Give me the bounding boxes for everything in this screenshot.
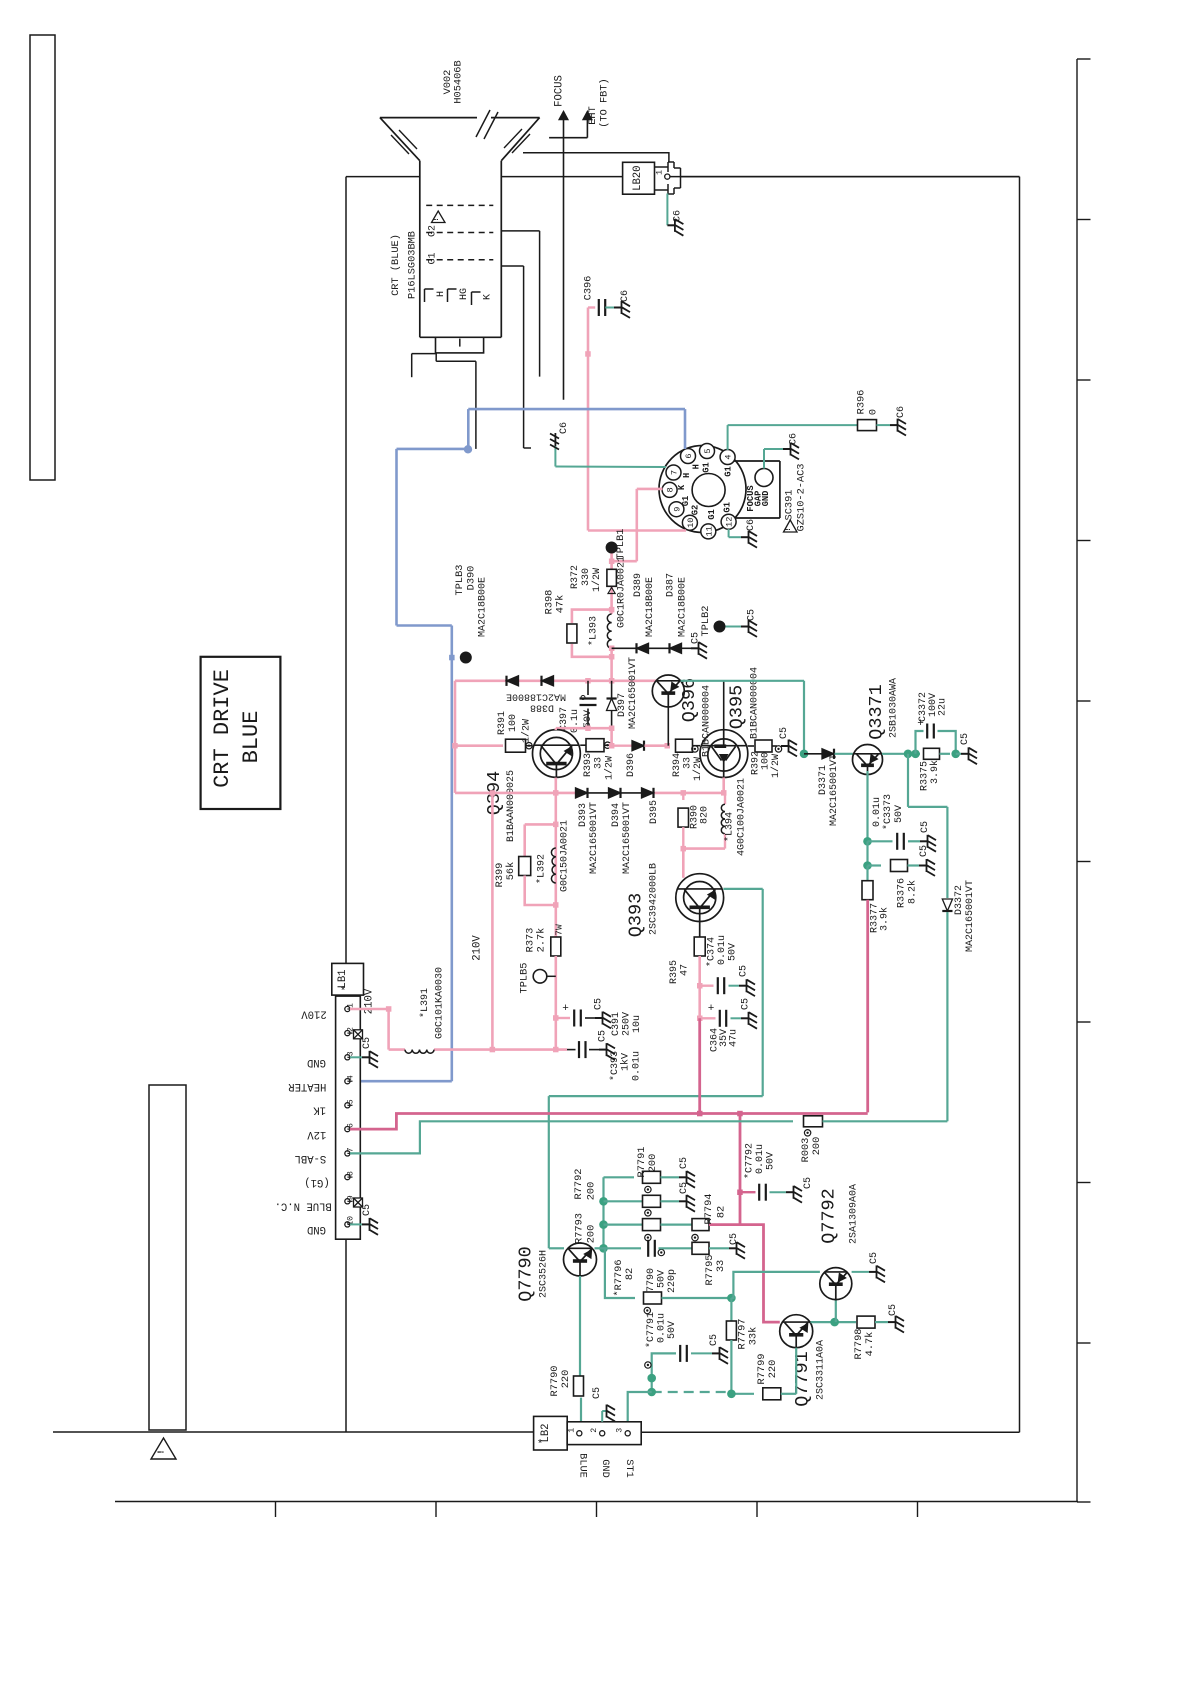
svg-text:D394: D394: [611, 803, 622, 827]
svg-text:G1: G1: [428, 252, 439, 264]
svg-text:2SC3942000LB: 2SC3942000LB: [649, 863, 660, 935]
label Q3371: [866, 684, 887, 740]
resistor R7799: [727, 1354, 796, 1400]
title strip top-left: [30, 35, 55, 480]
svg-text:GND: GND: [307, 1223, 326, 1235]
svg-text:D3371: D3371: [818, 765, 829, 795]
wire Q396 to Q3371 green: [681, 681, 809, 758]
svg-text:22u: 22u: [938, 698, 949, 716]
svg-text:R395: R395: [669, 960, 680, 984]
wire Q7792 emitter ground: [852, 1252, 885, 1282]
wire Q393 emitter green: [549, 889, 763, 1248]
capacitor C7792: [737, 1143, 814, 1203]
wire Q7790 base entry: [549, 1247, 564, 1249]
svg-text:*C7792: *C7792: [744, 1143, 756, 1179]
border ruler right: [1077, 59, 1091, 1502]
svg-text:C6: C6: [789, 433, 800, 445]
svg-text:C396: C396: [583, 276, 595, 301]
svg-text:SC391: SC391: [784, 490, 796, 521]
test point TPLB3: [460, 652, 472, 664]
label D390: [466, 566, 478, 591]
wire Q394 emitter: [554, 778, 557, 793]
svg-text:C5: C5: [679, 1157, 690, 1169]
svg-text:BLUE: BLUE: [577, 1453, 589, 1478]
label Q7791: [792, 1351, 813, 1407]
svg-text:R372: R372: [570, 565, 581, 589]
svg-text:8: 8: [666, 487, 676, 492]
label 2SC3526H part: [539, 1250, 550, 1298]
svg-text:B1BCAN000004: B1BCAN000004: [750, 667, 761, 739]
svg-text:R3376: R3376: [896, 878, 907, 908]
svg-text:12: 12: [725, 517, 735, 527]
svg-text:3.9k: 3.9k: [878, 907, 890, 931]
ground C6 at pin7: [549, 422, 570, 450]
svg-text:G2: G2: [428, 225, 439, 237]
svg-text:250V: 250V: [622, 1012, 633, 1036]
resistor R392: [748, 740, 782, 778]
svg-text:C5: C5: [739, 965, 750, 977]
svg-text:C5: C5: [747, 609, 758, 621]
svg-text:D3372: D3372: [954, 885, 965, 915]
label GZS10-2-AC3: [796, 464, 808, 532]
svg-text:G1: G1: [723, 502, 733, 513]
wire socket pin4 to R396: [728, 425, 858, 450]
label 2SA1309A0A part: [849, 1184, 860, 1244]
diode D390 second: [542, 676, 554, 686]
label G0C1R0JA0021: [617, 556, 628, 628]
label 2SB1030AWA part: [889, 678, 900, 738]
svg-text:2SC3526H: 2SC3526H: [539, 1250, 550, 1298]
svg-text:P16LSG03BMB: P16LSG03BMB: [407, 231, 419, 299]
inner frame: [53, 177, 1020, 1433]
svg-text:MA2C165001VT: MA2C165001VT: [589, 802, 600, 874]
svg-text:R394: R394: [672, 753, 683, 777]
wire Q7791 emitter junction: [811, 1318, 857, 1327]
svg-text:200: 200: [647, 1154, 659, 1173]
svg-text:C5: C5: [362, 1204, 373, 1216]
svg-text:C5: C5: [869, 1252, 880, 1264]
svg-text:C391: C391: [611, 1012, 622, 1036]
socket SC391 body: [659, 446, 780, 533]
svg-text:*: *: [537, 1439, 544, 1451]
capacitor C3373: [863, 794, 936, 852]
svg-text:11: 11: [704, 526, 714, 536]
ground C6 at LB20: [667, 194, 683, 236]
svg-text:200: 200: [585, 1182, 597, 1201]
svg-text:D395: D395: [649, 800, 660, 824]
label B1BCAN000004 part Q396: [702, 685, 713, 757]
resistor R398: [544, 590, 612, 657]
wire Q394 base bias: [525, 793, 559, 908]
transistor Q7790: [564, 1243, 597, 1276]
inductor L394: [721, 793, 735, 849]
svg-text:HEATER: HEATER: [288, 1080, 327, 1092]
svg-text:MA2C165001VT: MA2C165001VT: [965, 880, 976, 952]
diode D387: [649, 573, 689, 653]
svg-text:47k: 47k: [555, 595, 567, 614]
svg-text:(G1): (G1): [304, 1176, 329, 1188]
resistor R390: [678, 793, 711, 849]
svg-text:MA2C165001VT: MA2C165001VT: [622, 802, 633, 874]
svg-text:TPLB3: TPLB3: [454, 565, 466, 596]
wire Q395 emitter: [722, 778, 725, 793]
diode D396: [626, 741, 644, 777]
junction L393 D389: [609, 646, 615, 681]
wire Q3371 emitter right: [882, 750, 920, 759]
svg-text:C6: C6: [896, 406, 907, 418]
transistor Q7791: [780, 1315, 813, 1348]
svg-text:C6: C6: [746, 519, 757, 531]
test point TPLB5: [519, 963, 556, 994]
capacitor C364: [697, 986, 757, 1052]
wire Q393 rail to 12V bus: [698, 1018, 701, 1112]
svg-text:8: 8: [347, 1171, 356, 1176]
wire 12V drop to R7794: [739, 1114, 742, 1225]
connector LB20: [623, 162, 681, 194]
label P16LSG03BMB: [407, 231, 419, 299]
svg-text:200: 200: [585, 1225, 597, 1244]
label B1BAAN000025 part: [506, 770, 517, 842]
label B1BCAN000004 part Q395: [750, 667, 761, 739]
resistor R003: [800, 1116, 947, 1163]
connector LB2: [534, 1416, 642, 1451]
EHT lead: [549, 111, 592, 138]
diode D397: [607, 657, 640, 729]
wire emitter diode row: [455, 790, 727, 796]
svg-text:!: !: [785, 527, 793, 532]
svg-text:210V: 210V: [472, 935, 484, 961]
svg-text:R3375: R3375: [920, 761, 931, 791]
svg-text:7: 7: [670, 470, 680, 475]
wire R390 L394 bottom: [681, 846, 726, 878]
capacitor C393: [567, 1030, 643, 1081]
svg-text:MA2C165001VT: MA2C165001VT: [829, 754, 840, 826]
svg-text:C5: C5: [729, 1233, 740, 1245]
svg-text:C5: C5: [679, 1182, 690, 1194]
junction R372-R398-L393: [609, 607, 615, 613]
svg-text:TPLB2: TPLB2: [700, 606, 712, 637]
svg-text:33: 33: [715, 1260, 727, 1272]
svg-text:1/2W: 1/2W: [770, 754, 782, 778]
svg-text:CRT (BLUE): CRT (BLUE): [390, 234, 402, 296]
label R7793: [574, 1213, 598, 1244]
svg-text:6: 6: [684, 453, 694, 458]
svg-text:3.9k: 3.9k: [929, 760, 941, 784]
svg-text:(TO FBT): (TO FBT): [599, 78, 611, 127]
transistor Q3371: [853, 745, 883, 775]
wire socket pin7 ground: [555, 446, 666, 467]
CRT heater cathode electrodes: [425, 289, 481, 305]
svg-text:50V: 50V: [667, 1321, 678, 1339]
svg-text:9: 9: [672, 507, 682, 512]
warning triangle SC391: [784, 520, 798, 532]
svg-text:10u: 10u: [632, 1015, 643, 1033]
inductor L391: [405, 967, 446, 1053]
svg-text:4G0C100JA0021: 4G0C100JA0021: [737, 778, 748, 856]
diode D393: [576, 788, 609, 874]
socket pins: [662, 444, 736, 539]
wire 12V net: [350, 1111, 868, 1129]
svg-text:CRT DRIVE: CRT DRIVE: [210, 669, 235, 788]
svg-text:2SC3311A0A: 2SC3311A0A: [816, 1340, 827, 1400]
svg-text:47: 47: [680, 964, 691, 976]
svg-text:200: 200: [811, 1137, 823, 1156]
svg-text:33: 33: [683, 757, 694, 769]
diode D388: [506, 676, 566, 713]
capacitor C397: [559, 681, 597, 733]
svg-text:50V: 50V: [583, 710, 594, 728]
svg-text:*C374: *C374: [706, 937, 718, 967]
label Q394: [484, 771, 505, 815]
svg-text:2.7k: 2.7k: [536, 928, 548, 953]
svg-text:1/2W: 1/2W: [604, 756, 616, 780]
diode D395: [642, 788, 661, 824]
resistor R7791: [604, 1147, 696, 1188]
svg-text:0.01u: 0.01u: [872, 797, 883, 827]
wire 12V to Q7791 base: [740, 1225, 780, 1323]
svg-text:210V: 210V: [301, 1008, 327, 1020]
svg-text:C5: C5: [594, 998, 605, 1010]
diode D394: [609, 788, 642, 874]
svg-text:G2: G2: [691, 505, 701, 516]
svg-text:G1: G1: [724, 466, 734, 477]
svg-text:C6: C6: [559, 422, 570, 434]
label Q396: [679, 678, 700, 722]
svg-text:R7794: R7794: [703, 1194, 715, 1225]
svg-text:MA2C18B00E: MA2C18B00E: [678, 577, 689, 637]
svg-text:D387: D387: [666, 573, 677, 597]
wire KB line upper: [585, 308, 591, 531]
resistor R7790: [549, 1276, 584, 1433]
junction R393 D396: [609, 743, 632, 749]
svg-text:3: 3: [347, 1051, 356, 1056]
wire Q7792 base from R7796 node: [731, 1272, 820, 1298]
wire 210V rail: [472, 793, 493, 1050]
label FOCUS: [554, 75, 566, 107]
label G2: [428, 225, 439, 237]
svg-text:R391: R391: [497, 711, 508, 735]
svg-text:D390: D390: [466, 566, 478, 591]
svg-text:Q7790: Q7790: [516, 1246, 537, 1302]
title box CRT DRIVE BLUE: [201, 657, 281, 809]
svg-text:D389: D389: [633, 573, 644, 597]
capacitor C396: [583, 276, 606, 316]
svg-text:TPLB5: TPLB5: [519, 963, 531, 994]
svg-text:!: !: [433, 217, 441, 222]
resistor R395: [669, 922, 705, 986]
svg-text:R7792: R7792: [573, 1169, 585, 1200]
svg-text:+: +: [562, 1003, 569, 1015]
svg-text:0.01u: 0.01u: [755, 1144, 766, 1174]
svg-text:330: 330: [581, 568, 592, 586]
svg-text:EHT: EHT: [587, 106, 599, 125]
svg-text:*L393: *L393: [588, 616, 600, 646]
diode D3372: [942, 807, 976, 1121]
ground C5 at LB1 pin10: [350, 1204, 378, 1235]
label CRT (BLUE): [390, 234, 402, 296]
diode D3371: [804, 749, 853, 826]
svg-text:2SA1309A0A: 2SA1309A0A: [849, 1184, 860, 1244]
svg-text:C5: C5: [592, 1387, 603, 1399]
capacitor C7790: [604, 1234, 679, 1298]
label SC391: [784, 490, 796, 521]
svg-text:H: H: [682, 473, 692, 478]
svg-text:FOCUS: FOCUS: [554, 75, 566, 107]
svg-text:220: 220: [560, 1370, 572, 1389]
svg-text:R393: R393: [583, 753, 594, 777]
inductor L393: [588, 610, 612, 649]
label TPLB1: [615, 529, 627, 560]
svg-text:100: 100: [761, 752, 772, 770]
svg-text:220p: 220p: [667, 1269, 678, 1293]
svg-text:G1: G1: [707, 509, 717, 520]
label strip left: [149, 1085, 186, 1430]
label 2SC3942000LB part: [649, 863, 660, 935]
transistor Q394: [533, 730, 581, 778]
wire R3377 to 12V rail magenta: [866, 900, 869, 1113]
svg-text:10: 10: [686, 518, 696, 528]
resistor R7798: [853, 1304, 904, 1359]
resistor R7794: [692, 1194, 740, 1241]
transistor Q7792: [820, 1268, 852, 1300]
label H electrode: [436, 291, 447, 297]
wire video row: [452, 678, 656, 793]
svg-text:H: H: [436, 291, 447, 297]
wire G1: [501, 266, 531, 448]
svg-text:C5: C5: [888, 1304, 899, 1316]
wire G2 to frame: [501, 231, 539, 377]
svg-text:G0C150JA0021: G0C150JA0021: [560, 820, 571, 892]
wire dashed row to LB2 pin3: [628, 1388, 732, 1422]
label K electrode: [483, 294, 494, 300]
svg-text:G1: G1: [701, 462, 711, 473]
svg-text:TPLB1: TPLB1: [615, 529, 627, 560]
svg-text:*C7791: *C7791: [645, 1312, 657, 1348]
wire 210V bus: [389, 1047, 567, 1053]
svg-text:B1BAAN000025: B1BAAN000025: [506, 770, 517, 842]
label EHT: [587, 106, 599, 125]
svg-text:820: 820: [700, 806, 711, 824]
border ruler bottom: [115, 1502, 1078, 1518]
svg-text:47u: 47u: [729, 1029, 740, 1047]
wire Q395 collector: [723, 681, 725, 730]
svg-text:Q7792: Q7792: [819, 1188, 840, 1244]
svg-text:C5: C5: [779, 727, 790, 739]
svg-text:2SB1030AWA: 2SB1030AWA: [889, 678, 900, 738]
ground C6 at R396: [877, 406, 908, 436]
resistor R373: [525, 905, 565, 1050]
svg-text:*L392: *L392: [536, 854, 548, 884]
svg-text:GND: GND: [599, 1459, 611, 1478]
svg-text:50V: 50V: [728, 943, 739, 961]
svg-text:Q393: Q393: [626, 893, 647, 937]
svg-text:2: 2: [590, 1428, 599, 1433]
resistor R7795: [659, 1233, 746, 1285]
svg-text:MA2C18B00E: MA2C18B00E: [645, 577, 656, 637]
svg-text:1K: 1K: [313, 1104, 326, 1116]
svg-text:0.01u: 0.01u: [717, 935, 728, 965]
wire C397 D397 bottom: [556, 726, 615, 746]
svg-text:C5: C5: [598, 1030, 609, 1042]
FOCUS lead: [559, 111, 568, 400]
CRT grid dashed electrodes: [426, 205, 493, 259]
svg-text:C6: C6: [620, 290, 631, 302]
socket electrode labels: [677, 462, 733, 520]
svg-text:Q395: Q395: [727, 685, 748, 729]
label 2SC3311A0A part: [816, 1340, 827, 1400]
svg-text:50V: 50V: [657, 1270, 668, 1288]
wire Q396 collector down: [667, 707, 669, 746]
ground C5 at R3375: [956, 733, 977, 764]
svg-text:*L394: *L394: [724, 812, 736, 842]
resistor R391: [455, 711, 533, 752]
svg-text:MA2C165001VT: MA2C165001VT: [628, 657, 639, 729]
svg-text:R396: R396: [856, 390, 868, 415]
resistor R396: [856, 390, 880, 431]
svg-text:G0C101KA0030: G0C101KA0030: [435, 967, 446, 1039]
label G1: [428, 252, 439, 264]
wire Q394 collector: [555, 728, 557, 730]
svg-text:1kV: 1kV: [620, 1053, 632, 1071]
svg-text:D388: D388: [530, 702, 554, 713]
wire Q7791 emitter to R7799: [795, 1348, 797, 1394]
svg-text:Q396: Q396: [679, 678, 700, 722]
svg-text:C5: C5: [919, 845, 930, 857]
warning triangle G2: [432, 211, 446, 223]
svg-text:K: K: [677, 484, 687, 490]
svg-text:0.01u: 0.01u: [632, 1051, 643, 1081]
svg-text:G1: G1: [681, 496, 691, 507]
svg-text:220: 220: [767, 1360, 779, 1379]
resistor R7796: [604, 1248, 736, 1313]
svg-text:*C3373: *C3373: [882, 794, 894, 830]
wire Q3371 collector down: [866, 771, 868, 838]
wire socket pin12 ground: [729, 519, 757, 548]
label V002: [442, 70, 454, 95]
svg-text:33k: 33k: [748, 1327, 760, 1346]
svg-text:*L391: *L391: [419, 988, 431, 1018]
svg-text:1/2W: 1/2W: [692, 757, 704, 781]
svg-text:B1BCAN000004: B1BCAN000004: [702, 685, 713, 757]
svg-text:C5: C5: [920, 821, 931, 833]
svg-text:BLUE N.C.: BLUE N.C.: [275, 1200, 332, 1212]
svg-text:MA2C18B00E: MA2C18B00E: [478, 577, 489, 637]
CRT base: [412, 337, 484, 449]
svg-text:D396: D396: [626, 753, 637, 777]
label FOCUS GAP GND: [746, 485, 771, 511]
label TPLB3: [454, 565, 466, 596]
label R7792: [573, 1169, 598, 1201]
connector LB1: [332, 963, 364, 1239]
wire D396 to junction: [645, 743, 671, 749]
svg-text:H05406B: H05406B: [453, 60, 465, 103]
svg-text:4: 4: [724, 454, 734, 459]
svg-text:50V: 50V: [894, 805, 905, 823]
label HG electrode: [459, 288, 470, 300]
resistor R393: [580, 739, 615, 780]
label H05406B: [453, 60, 465, 103]
resistor R372: [570, 561, 616, 609]
svg-text:HG: HG: [459, 288, 470, 300]
LB2 pin labels: [577, 1453, 635, 1478]
resistor R7793 row: [604, 1210, 693, 1231]
transistor Q393: [676, 874, 724, 922]
wire S-ABL net: [350, 1121, 793, 1153]
svg-text:7: 7: [347, 1147, 356, 1152]
svg-text:*C393: *C393: [609, 1051, 621, 1081]
test point TPLB2: [700, 606, 726, 637]
capacitor C3372: [916, 692, 956, 754]
